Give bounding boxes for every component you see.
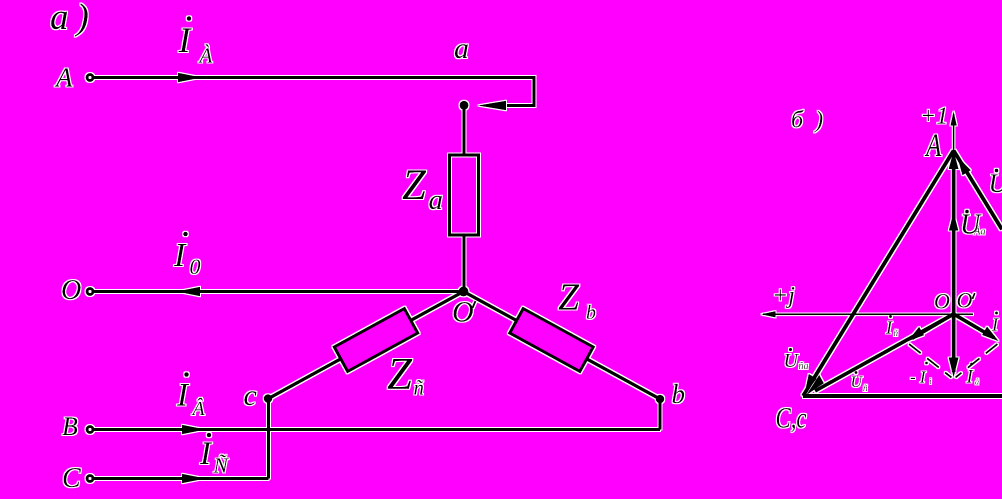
svg-text:I: I: [178, 20, 193, 60]
svg-text:+j: +j: [772, 283, 795, 309]
svg-text:ì: ì: [930, 377, 932, 386]
svg-text:ñ: ñ: [894, 328, 899, 338]
svg-text:A: A: [924, 128, 942, 164]
svg-text:ñ: ñ: [863, 383, 868, 393]
svg-text:c: c: [244, 379, 257, 412]
svg-text:- I: - I: [910, 368, 927, 387]
svg-text:U: U: [784, 350, 800, 372]
svg-text:O: O: [452, 296, 474, 329]
svg-text:b: b: [586, 302, 596, 324]
svg-text:Â: Â: [191, 397, 206, 420]
svg-text:B: B: [62, 412, 78, 441]
svg-text:I: I: [885, 318, 893, 338]
svg-text:A: A: [54, 63, 73, 93]
svg-text:ña: ña: [799, 361, 809, 372]
svg-text:+1: +1: [920, 104, 948, 130]
svg-text:I: I: [199, 436, 213, 472]
svg-text:Z: Z: [387, 349, 413, 399]
svg-text:a: a: [454, 32, 469, 65]
svg-text:O: O: [934, 289, 950, 314]
svg-text:ñ: ñ: [414, 376, 425, 400]
svg-text:O: O: [957, 288, 973, 313]
svg-text:C,c: C,c: [776, 402, 807, 435]
svg-text:U: U: [989, 169, 1002, 198]
svg-text:O: O: [61, 275, 81, 306]
svg-text:b: b: [672, 379, 686, 409]
svg-text:À: À: [198, 44, 213, 68]
svg-text:I: I: [991, 315, 999, 335]
svg-text:C: C: [62, 463, 81, 494]
svg-text:a): a): [50, 0, 97, 38]
svg-text:â: â: [975, 378, 979, 387]
svg-text:I: I: [176, 378, 190, 414]
svg-text:a: a: [429, 184, 444, 216]
svg-text:б ): б ): [791, 108, 826, 134]
svg-text:0: 0: [190, 254, 201, 279]
svg-text:Ñ: Ñ: [213, 454, 230, 478]
svg-text:I: I: [173, 237, 187, 274]
svg-text:Àа: Àа: [973, 226, 985, 238]
svg-text:U: U: [851, 374, 864, 391]
svg-text:Z: Z: [558, 277, 580, 319]
svg-text:Z: Z: [402, 162, 427, 209]
